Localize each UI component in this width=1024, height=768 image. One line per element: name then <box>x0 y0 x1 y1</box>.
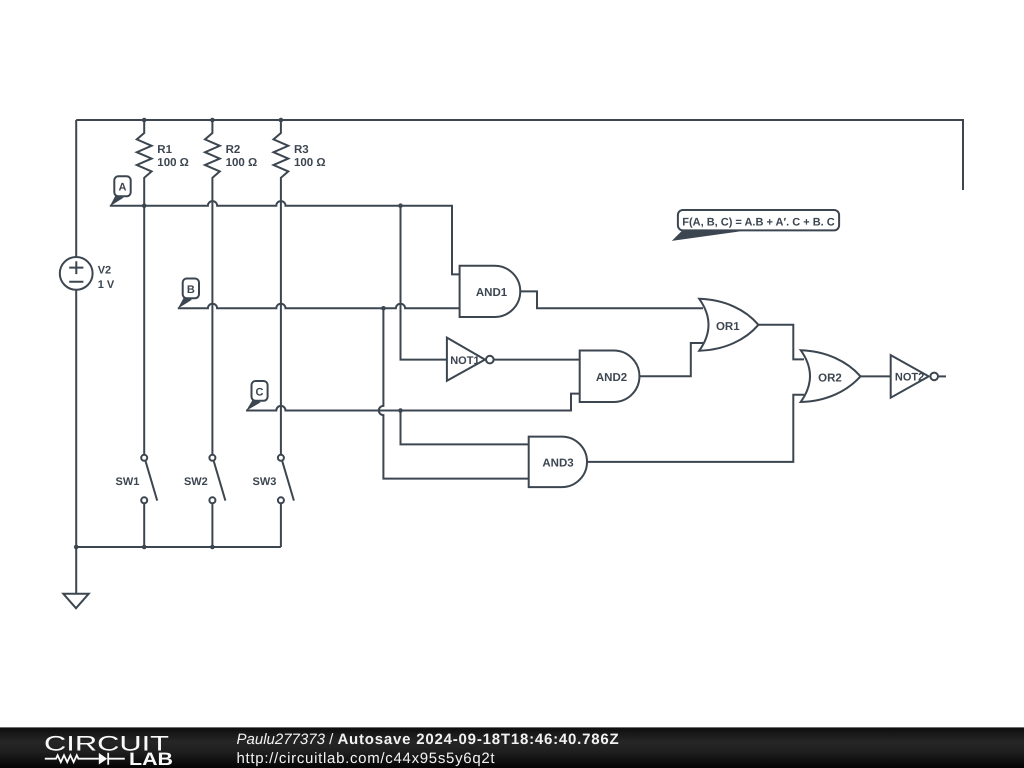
svg-text:SW3: SW3 <box>253 476 277 488</box>
wire AND1 output to OR1 upper input <box>520 291 703 308</box>
annotation F(A,B,C) <box>672 210 839 241</box>
svg-text:100 Ω: 100 Ω <box>294 157 326 169</box>
switch SW3 <box>278 455 294 504</box>
svg-text:C: C <box>256 386 264 398</box>
ground <box>63 594 88 608</box>
svg-text:AND2: AND2 <box>596 372 627 384</box>
svg-text:AND1: AND1 <box>476 287 508 299</box>
wire AND3 output to OR2 lower input <box>587 395 804 462</box>
svg-text:B: B <box>187 284 195 296</box>
flag node A <box>110 176 131 206</box>
svg-text:A: A <box>119 182 127 194</box>
wire OR2 output to NOT2 input <box>861 375 892 377</box>
switch SW2 <box>209 455 225 504</box>
svg-text:NOT2: NOT2 <box>895 372 924 384</box>
wire net B <box>178 304 461 309</box>
junction top rail R2 <box>210 118 215 123</box>
svg-text:LAB: LAB <box>129 749 173 768</box>
svg-text:F(A, B, C) = A.B + A′. C + B.: F(A, B, C) = A.B + A′. C + B. C <box>682 216 835 228</box>
wire SW2 bottom lead <box>211 503 213 547</box>
gate AND3 <box>529 437 587 488</box>
junction node A branch to NOT1 <box>398 203 403 208</box>
switch SW1 <box>141 455 157 504</box>
logo resistor squiggle <box>45 755 99 762</box>
wire V2 top lead <box>75 120 77 257</box>
wire net C <box>246 394 581 411</box>
gate AND2 <box>580 351 640 403</box>
svg-text:R1: R1 <box>157 144 172 156</box>
gate OR2 <box>801 350 861 402</box>
svg-text:SW2: SW2 <box>184 476 208 488</box>
wire A to NOT1 input <box>401 206 448 360</box>
flag node C <box>246 381 268 411</box>
junction bottom bus V2 <box>74 545 79 550</box>
svg-text:OR1: OR1 <box>716 321 740 333</box>
resistor R1 <box>137 120 152 455</box>
gate AND1 <box>460 266 521 317</box>
resistor R2 <box>205 120 220 455</box>
svg-text:1 V: 1 V <box>98 279 115 291</box>
flag node B <box>178 279 199 309</box>
gate NOT1 <box>447 338 494 381</box>
voltage source V2 <box>60 257 93 290</box>
wire net A <box>110 201 461 274</box>
wire AND2 output to OR1 lower input <box>639 343 703 376</box>
footer bar <box>0 727 1024 768</box>
wire OR1 output to OR2 upper input <box>758 325 804 360</box>
logo diode <box>99 753 107 765</box>
svg-text:V2: V2 <box>98 265 111 277</box>
svg-text:OR2: OR2 <box>818 372 842 384</box>
wire SW1 bottom lead <box>143 503 145 547</box>
svg-text:NOT1: NOT1 <box>450 355 479 367</box>
wire B branch to AND3 lower input <box>379 308 530 478</box>
wire V2 bottom lead <box>75 290 77 547</box>
svg-text:Paulu277373 / Autosave 2024-09: Paulu277373 / Autosave 2024-09-18T18:46:… <box>237 731 620 748</box>
wire NOT1 output to AND2 input <box>494 359 581 361</box>
junction node A at R1 <box>142 203 147 208</box>
junction node B branch to AND3 <box>381 306 386 311</box>
gate OR1 <box>699 299 758 351</box>
wire C branch to AND3 upper input <box>401 411 530 445</box>
wire top rail <box>76 120 963 190</box>
junction top rail R1 <box>142 118 147 123</box>
svg-text:SW1: SW1 <box>116 476 140 488</box>
svg-text:100 Ω: 100 Ω <box>157 157 189 169</box>
wire bottom bus <box>76 546 281 548</box>
gate NOT2 <box>891 355 938 398</box>
junction bottom bus SW2 <box>210 545 215 550</box>
junction node C branch to AND3 <box>398 408 403 413</box>
svg-text:R2: R2 <box>226 144 241 156</box>
wire SW3 bottom lead <box>280 503 282 547</box>
junction bottom bus SW1 <box>142 545 147 550</box>
svg-text:100 Ω: 100 Ω <box>226 157 258 169</box>
svg-text:R3: R3 <box>294 144 309 156</box>
wire NOT2 output stub <box>938 375 946 377</box>
svg-text:AND3: AND3 <box>542 457 573 469</box>
junction top rail R3 <box>279 118 284 123</box>
resistor R3 <box>274 120 289 455</box>
wire ground lead <box>75 547 77 594</box>
svg-text:http://circuitlab.com/c44x95s5: http://circuitlab.com/c44x95s5y6q2t <box>237 750 496 767</box>
